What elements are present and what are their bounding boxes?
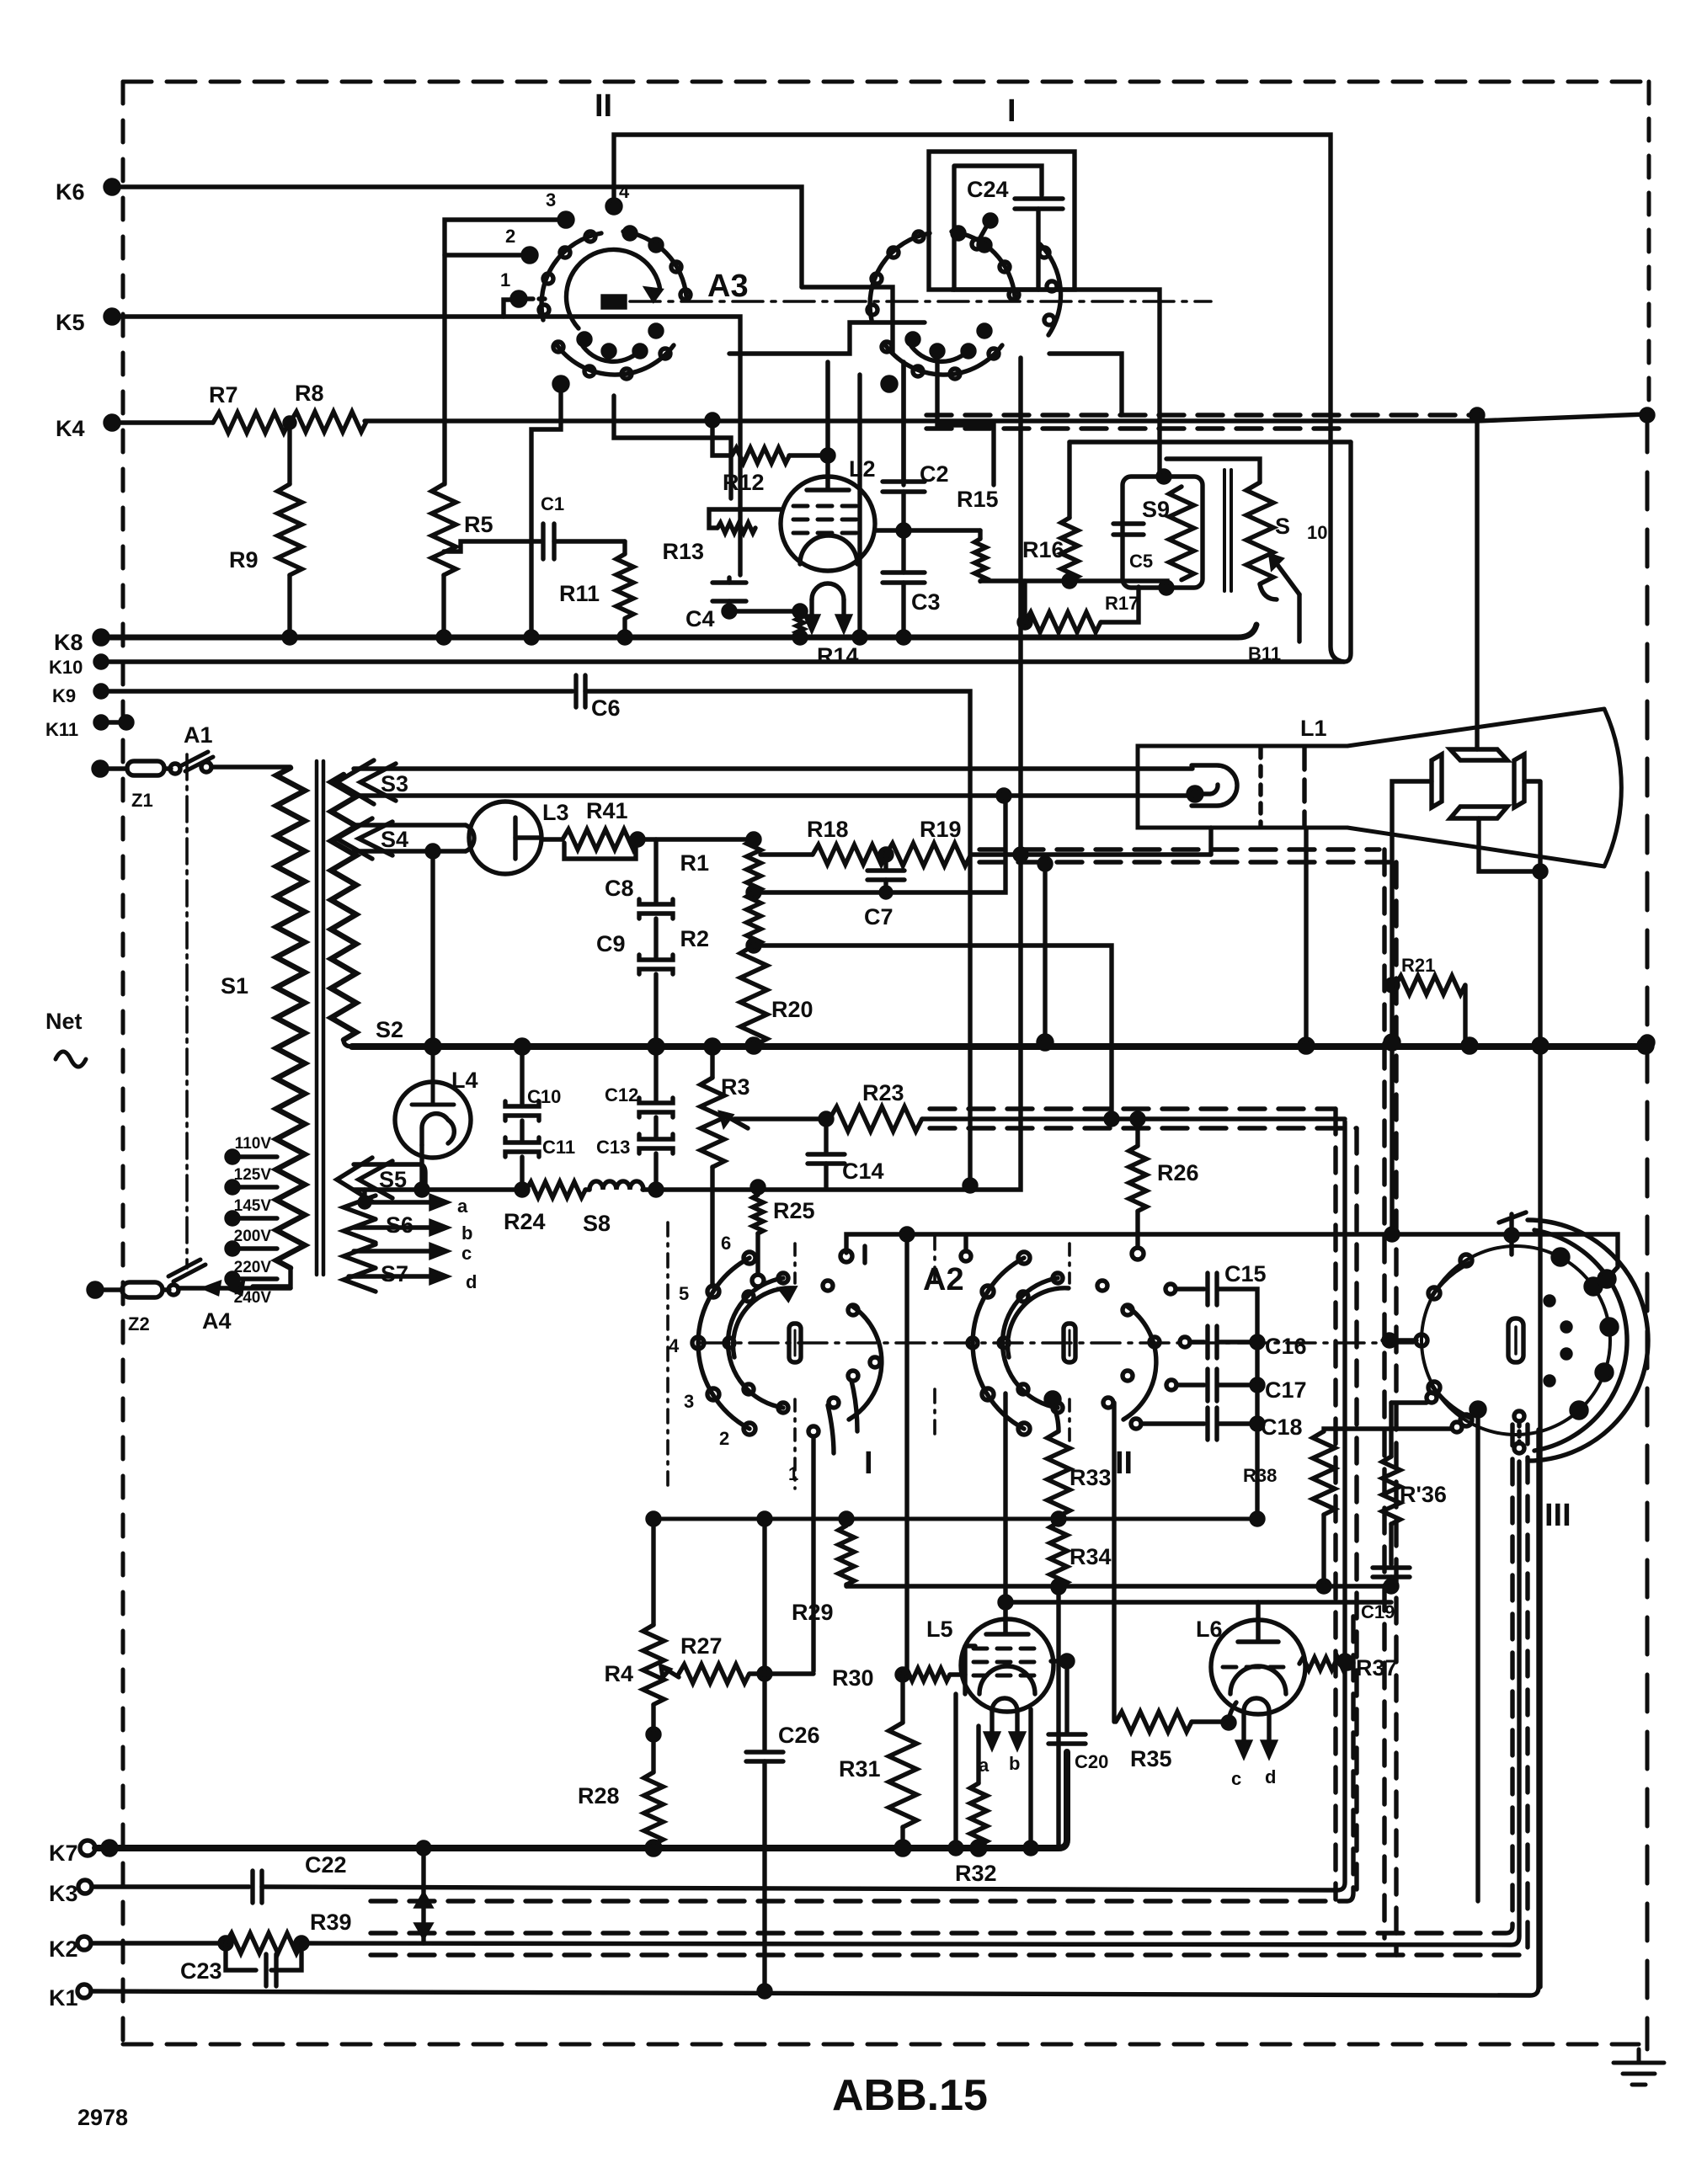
svg-text:C9: C9 [596, 931, 626, 956]
dashed shield rails bottom [371, 1608, 1353, 1901]
capacitor C26 [762, 1519, 766, 1750]
rotor lower arc [910, 344, 971, 361]
svg-text:R21: R21 [1401, 955, 1435, 976]
wire right plate to HV rail [1524, 781, 1540, 1987]
wire A4 to S1 bottom [243, 1286, 291, 1290]
resistor R38 [1324, 1429, 1452, 1431]
resistor R11 [622, 541, 627, 554]
tap S7 with outputs c d [344, 1244, 376, 1292]
svg-text:a: a [457, 1196, 468, 1217]
contact 3 [559, 213, 573, 226]
tap S6 with outputs a b [344, 1196, 376, 1243]
svg-text:200V: 200V [234, 1228, 272, 1245]
terminal K2 [77, 1936, 91, 1950]
svg-text:C17: C17 [1265, 1377, 1307, 1403]
wire screen line y1804 [653, 1517, 1257, 1521]
transformer core [317, 761, 323, 1275]
svg-text:B11: B11 [1248, 643, 1281, 664]
terminal K11 [95, 716, 107, 728]
svg-text:220V: 220V [234, 1259, 272, 1276]
svg-text:S1: S1 [221, 973, 248, 999]
resistor R25 [752, 1181, 764, 1193]
svg-text:R5: R5 [464, 512, 493, 537]
wire R2 row to R26 riser [754, 946, 1112, 1119]
svg-text:C6: C6 [591, 695, 621, 721]
shield dashed verticals right [1382, 850, 1386, 1938]
resistor R19 [886, 844, 971, 866]
contact 4 [607, 200, 621, 213]
svg-text:S9: S9 [1142, 497, 1170, 522]
terminal K6 [105, 180, 119, 194]
svg-text:L2: L2 [849, 456, 876, 482]
wire R39 rail right [301, 1462, 1519, 1945]
tube L5 [961, 1619, 1054, 1712]
inner contact arc [728, 1278, 783, 1408]
svg-text:II: II [1115, 1446, 1133, 1481]
resistor R2 [748, 887, 760, 898]
resistor R23 [734, 1116, 829, 1121]
wire top border [123, 80, 1649, 84]
svg-text:2: 2 [719, 1428, 729, 1449]
svg-text:C13: C13 [596, 1137, 630, 1158]
primary voltage taps [227, 1151, 238, 1163]
tap S5 banner [337, 1158, 392, 1201]
resistor R8 [291, 412, 366, 432]
box S9 C5 [1123, 477, 1203, 588]
svg-text:C26: C26 [778, 1723, 820, 1748]
resistor R15 [978, 530, 982, 539]
wire contact4 riser and top run [614, 135, 1344, 662]
capacitor C2 [901, 362, 905, 482]
resistor R32 [976, 1726, 980, 1783]
resistor R39 [226, 1933, 301, 1953]
wire top plate feed [1475, 415, 1479, 749]
hub [789, 1324, 801, 1362]
svg-text:A2: A2 [923, 1262, 964, 1297]
wire neck bottom risers [1211, 828, 1306, 1042]
contact 2 [523, 248, 536, 262]
tap S3 [337, 760, 396, 804]
bottom contact arc [884, 344, 1002, 375]
svg-text:R39: R39 [310, 1910, 352, 1935]
tube L4 [395, 1082, 471, 1158]
winding S9 [1169, 487, 1194, 580]
svg-text:K6: K6 [56, 179, 85, 205]
wire bottom border [123, 2043, 1639, 2047]
wire R1/R2 node to heater line [754, 795, 1006, 892]
svg-text:d: d [466, 1271, 477, 1292]
capacitor C23 parallel below R39 [226, 1943, 301, 1970]
svg-text:R'36: R'36 [1400, 1482, 1447, 1507]
right contacts [849, 1307, 882, 1420]
svg-text:R31: R31 [839, 1756, 881, 1782]
wire K3 to C22 [92, 1884, 249, 1888]
svg-text:240V: 240V [234, 1289, 272, 1307]
svg-text:S8: S8 [583, 1211, 611, 1236]
inductor S8 [589, 1181, 643, 1190]
wire K8 thick rail [101, 625, 1256, 637]
wire wafer II to L5 plate [1003, 1393, 1007, 1602]
capacitor C19 [1373, 1568, 1410, 1577]
resistor R'36 [1391, 1400, 1427, 1404]
svg-text:R7: R7 [209, 382, 238, 408]
svg-text:R15: R15 [957, 487, 999, 512]
capacitor C17 [1166, 1380, 1176, 1390]
svg-text:R28: R28 [578, 1783, 620, 1808]
svg-text:R33: R33 [1070, 1465, 1112, 1490]
svg-text:R8: R8 [295, 381, 324, 406]
svg-text:S4: S4 [381, 827, 408, 852]
contact 4 [692, 1337, 704, 1349]
wire K4 rail across page [112, 414, 1646, 423]
svg-text:C4: C4 [685, 606, 715, 631]
capacitor C6 [576, 675, 585, 707]
svg-text:R18: R18 [807, 817, 849, 842]
svg-text:L3: L3 [542, 800, 569, 825]
transformer secondary S2 [331, 775, 356, 1040]
wire L2 heater arrows a b [812, 599, 844, 619]
transformer primary S1 [276, 768, 305, 1268]
svg-text:a: a [979, 1755, 990, 1776]
CRT bell [1347, 709, 1604, 866]
resistor R17 [1019, 616, 1031, 628]
svg-text:R1: R1 [680, 850, 709, 876]
contact to R33 [1046, 1393, 1059, 1406]
svg-text:C10: C10 [527, 1086, 561, 1107]
resistor R29 [844, 1519, 848, 1526]
svg-text:C11: C11 [542, 1137, 575, 1158]
resistor R31 [900, 1675, 904, 1723]
svg-text:2: 2 [505, 226, 515, 247]
svg-text:K1: K1 [49, 1985, 78, 2011]
resistor R9 [287, 423, 291, 484]
capacitor C3 [883, 573, 925, 583]
outer arc [698, 1258, 749, 1429]
svg-text:C5: C5 [1129, 551, 1153, 572]
resistor R34 [1050, 1522, 1067, 1587]
svg-text:S: S [1275, 514, 1290, 539]
capacitor C16 [1180, 1337, 1190, 1347]
node right border junction [1641, 409, 1653, 421]
rotor upper-right arc [623, 232, 686, 296]
svg-text:1: 1 [788, 1463, 798, 1484]
svg-text:C20: C20 [1075, 1751, 1108, 1772]
svg-text:R3: R3 [721, 1074, 750, 1100]
svg-text:III: III [1544, 1498, 1571, 1533]
svg-text:S6: S6 [386, 1212, 413, 1238]
rotor arc top [952, 232, 1015, 296]
svg-text:S5: S5 [379, 1167, 407, 1192]
left contact wire [1383, 1338, 1416, 1342]
svg-text:R16: R16 [1022, 537, 1064, 562]
wire bottom plate feed [1479, 818, 1540, 871]
svg-text:S7: S7 [381, 1261, 408, 1286]
terminal K1 [77, 1984, 91, 1998]
rotary switch A3 wafer II (left) [445, 135, 1344, 662]
svg-text:I: I [1007, 93, 1016, 129]
terminal K3 [78, 1880, 92, 1894]
capacitor C8 [653, 839, 658, 902]
contact ring [1416, 1334, 1427, 1346]
wire K1 rail right [91, 1430, 1539, 1995]
resistor R21 [1386, 979, 1398, 991]
resistor R35 [1116, 1712, 1192, 1732]
CRT heater filament [1192, 765, 1237, 806]
svg-text:C22: C22 [305, 1852, 347, 1878]
wire wafer I bottom to L2 C2 column [901, 362, 905, 485]
svg-text:C19: C19 [1361, 1601, 1395, 1622]
svg-text:C18: C18 [1261, 1414, 1303, 1440]
svg-text:K3: K3 [49, 1881, 78, 1906]
svg-text:C14: C14 [842, 1159, 884, 1184]
svg-text:4: 4 [619, 181, 630, 202]
svg-text:K8: K8 [54, 630, 83, 655]
potentiometer B11 wiper [1271, 556, 1299, 594]
bottom contact arc [556, 344, 674, 375]
contact 6 [744, 1252, 755, 1264]
svg-text:125V: 125V [234, 1166, 272, 1184]
svg-text:C1: C1 [541, 493, 564, 514]
capacitor C22 [253, 1871, 262, 1903]
svg-text:10: 10 [1307, 522, 1327, 543]
wire cathode line y1466 [846, 1234, 1618, 1279]
svg-text:C12: C12 [605, 1084, 638, 1105]
resistor R1 [748, 834, 760, 845]
svg-text:L1: L1 [1300, 716, 1327, 741]
svg-text:d: d [1265, 1766, 1276, 1787]
section divider dash-dot mid [933, 1236, 936, 1436]
wire K3-K2 link [421, 1888, 425, 1943]
svg-text:A1: A1 [184, 722, 213, 748]
wire left plate [1392, 781, 1432, 1234]
wire grid line y1884 [846, 1584, 1391, 1588]
wire K6 to A3 area [112, 187, 802, 287]
svg-text:R30: R30 [832, 1665, 874, 1691]
svg-text:A3: A3 [707, 269, 749, 304]
resistor R41 [541, 837, 563, 841]
wire K10 rail to right riser [101, 442, 1351, 662]
outer double arc [1534, 1230, 1627, 1451]
fuse Z2 [95, 1287, 122, 1292]
svg-text:R2: R2 [680, 926, 709, 951]
wire top right feed [1599, 1271, 1614, 1286]
wire K2 to R39 [91, 1941, 226, 1945]
wire L6 cathode to R35 [1229, 1702, 1236, 1723]
wire S3 heater pair banner [354, 766, 1192, 770]
svg-text:L5: L5 [926, 1617, 953, 1642]
svg-text:R14: R14 [817, 643, 859, 669]
capacitor C4 [712, 583, 746, 601]
resistor R7 [213, 413, 289, 433]
wire K9 to C6 [101, 689, 573, 693]
tube L2 [781, 477, 875, 571]
terminal Z2 input [88, 1283, 102, 1297]
terminal K5 [105, 310, 119, 323]
svg-text:R23: R23 [862, 1080, 904, 1105]
svg-text:R19: R19 [920, 817, 962, 842]
capacitor C18 [1131, 1419, 1141, 1429]
deflection plate left [1432, 754, 1442, 807]
resistor R24 [526, 1182, 585, 1198]
CRT L1 neck [1138, 709, 1621, 866]
svg-text:C16: C16 [1265, 1334, 1307, 1359]
svg-text:K7: K7 [49, 1840, 78, 1866]
svg-text:L4: L4 [451, 1068, 478, 1093]
resistor R30 [897, 1669, 909, 1681]
switch A4 [168, 1260, 205, 1281]
svg-text:I: I [864, 1446, 873, 1481]
ground [1614, 2049, 1664, 2085]
svg-text:R32: R32 [955, 1861, 997, 1886]
wire contact2 [445, 253, 530, 257]
svg-text:145V: 145V [234, 1197, 272, 1215]
svg-text:R17: R17 [1105, 593, 1139, 614]
terminal K10 [95, 656, 107, 668]
svg-text:3: 3 [546, 189, 556, 210]
wire L5 screen to C20 [1051, 1659, 1067, 1663]
wire shield tap to bus [1043, 862, 1047, 1042]
contact 5 [707, 1286, 719, 1297]
wire C22 rail right [262, 1121, 1345, 1890]
dashed rails beside R23 [930, 1106, 1336, 1111]
wire S5 line [354, 1187, 526, 1192]
wire staircase below wafer II [729, 322, 925, 354]
wire wafer II bottom to R35 [1112, 1403, 1116, 1722]
resistor R37 [1299, 1658, 1347, 1670]
shield dashed rails around CRT [926, 413, 1472, 417]
resistor R16 [1067, 442, 1071, 518]
svg-text:K9: K9 [52, 685, 76, 706]
svg-text:K2: K2 [49, 1936, 78, 1962]
centre dash-dot axis [630, 300, 1211, 303]
svg-text:R4: R4 [604, 1661, 633, 1686]
wire wafer I bottom feed to K8 [857, 375, 862, 637]
deflection plate bottom [1450, 807, 1507, 818]
resistor R13 and grid lead [709, 509, 781, 528]
transformer core S9/S10 [1224, 470, 1231, 591]
rotary switch A2 wafer III [1383, 1212, 1648, 1901]
resistor R28 [644, 1772, 664, 1845]
movable contact pair inside C24 box [984, 215, 996, 226]
svg-text:C24: C24 [967, 177, 1009, 202]
right side arcs near C24 [1040, 244, 1061, 335]
rotor arrow [733, 1288, 794, 1357]
wire S10 bottom hook [1260, 584, 1277, 599]
capacitor C9 [639, 955, 673, 974]
CRT gun separators [1258, 748, 1262, 825]
capacitor C24 box [929, 152, 1075, 290]
resistor R27 [679, 1665, 749, 1683]
fuse Z1 [100, 766, 127, 770]
svg-text:II: II [595, 88, 612, 124]
capacitor C20 [1064, 1661, 1069, 1732]
resistor R18 [760, 852, 813, 856]
wire S8 line riser [643, 358, 1021, 1190]
svg-text:R34: R34 [1070, 1544, 1112, 1569]
wire L2 anode row to R15 [875, 528, 980, 532]
svg-text:Net: Net [45, 1009, 83, 1034]
svg-text:Z1: Z1 [131, 790, 153, 811]
resistor R26 [1132, 1113, 1144, 1125]
svg-text:R25: R25 [773, 1198, 815, 1223]
svg-text:C3: C3 [911, 589, 941, 615]
contact 1 [512, 292, 525, 306]
tube L3 [469, 802, 541, 874]
linkage A1-A4 dash-dot [185, 754, 189, 1268]
svg-text:K4: K4 [56, 416, 85, 441]
wire L6 heater arrows c d [1244, 1711, 1269, 1745]
svg-text:c: c [461, 1243, 472, 1264]
wire right border [1647, 82, 1651, 413]
svg-text:S2: S2 [376, 1017, 403, 1042]
bottom left contact riser [1471, 1403, 1485, 1416]
resistor R20 [748, 940, 760, 951]
wire L5 heater arrows a b [992, 1711, 1017, 1736]
wire K7 thick rail [95, 1752, 1067, 1848]
capacitor C14 [820, 1113, 832, 1125]
wire C24 box to right [952, 290, 1160, 415]
switch A1 [180, 752, 213, 771]
svg-text:K5: K5 [56, 310, 85, 335]
outer contact arc upper-left [541, 233, 601, 320]
svg-text:C7: C7 [864, 904, 894, 930]
rotary switch A3 wafer I (right) [854, 152, 1160, 643]
section divider dash-dot left [666, 1223, 669, 1492]
capacitor C13 [653, 1117, 658, 1137]
svg-text:110V: 110V [235, 1135, 272, 1153]
svg-text:6: 6 [721, 1233, 731, 1254]
hub [603, 296, 625, 307]
svg-text:R27: R27 [680, 1633, 723, 1659]
svg-text:R35: R35 [1130, 1746, 1172, 1771]
terminal K8 [94, 631, 108, 644]
top stub contact [1499, 1212, 1526, 1254]
svg-text:1: 1 [500, 269, 510, 290]
capacitor C15 [1166, 1284, 1176, 1294]
capacitor C10 [520, 1047, 524, 1104]
wire left border [121, 82, 125, 2044]
svg-text:b: b [1009, 1753, 1020, 1774]
capacitor C12 [653, 1047, 658, 1100]
svg-text:R38: R38 [1243, 1465, 1277, 1486]
resistor R14 [797, 611, 803, 637]
contact 3 [707, 1388, 719, 1400]
terminal K9 [95, 685, 107, 697]
wire contact stubs down [851, 1381, 857, 1431]
resistor R5 [432, 484, 456, 575]
svg-text:3: 3 [684, 1391, 694, 1412]
terminal K4 [105, 416, 119, 429]
capacitor C7 [883, 855, 888, 868]
wire R23 rail [922, 1116, 1345, 1121]
capacitor C11 [520, 1121, 524, 1140]
svg-text:Z2: Z2 [128, 1313, 150, 1334]
wire C24 feed to S9 box [1157, 415, 1161, 477]
svg-text:R9: R9 [229, 547, 259, 573]
svg-text:R24: R24 [504, 1209, 546, 1234]
svg-text:C8: C8 [605, 876, 634, 901]
capacitor C1 [444, 541, 542, 551]
wire main HT bus [352, 1043, 1646, 1050]
resistor R12 [707, 414, 718, 426]
top contact riser [961, 1251, 971, 1261]
svg-text:4: 4 [669, 1335, 680, 1356]
wire A3 lower contact to K8 [531, 389, 561, 637]
svg-text:5: 5 [679, 1283, 689, 1304]
resistor R33 [1048, 1431, 1070, 1516]
tube L6 [1211, 1620, 1305, 1714]
wire S4 banner to L3 [354, 825, 466, 851]
